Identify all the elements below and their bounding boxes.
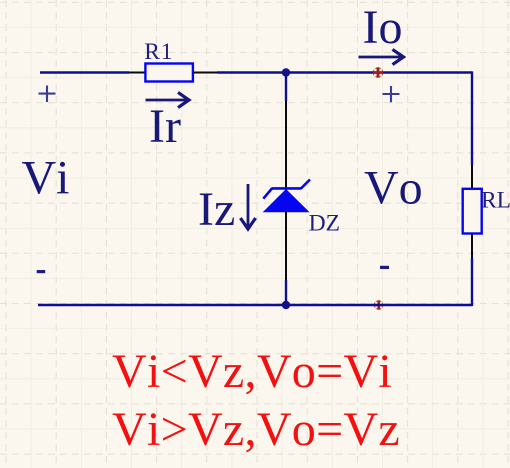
pin 2 of DZ (anode pin) <box>285 212 287 280</box>
wire: top input segment <box>40 71 129 73</box>
current arrow Ir <box>146 92 190 107</box>
current arrow Iz <box>240 184 255 229</box>
svg-text:Vo: Vo <box>364 162 423 215</box>
svg-text:RL: RL <box>481 188 510 214</box>
pin 2 of RL (bottom pin) <box>471 234 473 259</box>
minus terminal (input) <box>37 270 46 273</box>
plus terminal (output) <box>383 86 400 102</box>
minus terminal (output) <box>380 266 389 269</box>
wire: zener to node B <box>285 280 287 305</box>
svg-text:Iz: Iz <box>198 183 235 236</box>
zener diode DZ <box>263 180 310 213</box>
pin 2 of R1 (right pin) <box>193 72 217 74</box>
wire: node A down to zener <box>285 73 287 102</box>
plus terminal (input) <box>39 86 56 103</box>
svg-text:Io: Io <box>363 1 403 54</box>
resistor R1 <box>145 64 193 82</box>
wire: right vertical (top) <box>471 71 473 165</box>
resistor RL <box>463 189 482 234</box>
node A junction dot <box>282 68 290 76</box>
svg-text:Vi<Vz,Vo=Vi: Vi<Vz,Vo=Vi <box>112 345 392 398</box>
wire: R1 to node A <box>217 71 286 73</box>
node B junction dot <box>282 301 290 309</box>
no-ERC marker on top output wire <box>373 67 383 77</box>
pin 1 of DZ (cathode pin) <box>285 101 287 190</box>
pin 1 of RL (top pin) <box>471 165 473 189</box>
svg-text:Ir: Ir <box>149 100 181 153</box>
wire: bottom return <box>38 304 472 306</box>
svg-text:Vi>Vz,Vo=Vz: Vi>Vz,Vo=Vz <box>112 403 400 456</box>
svg-text:R1: R1 <box>144 39 173 65</box>
wire: node A to output corner <box>286 71 472 73</box>
svg-text:Vi: Vi <box>22 152 70 205</box>
pin 1 of R1 (left pin) <box>129 72 146 74</box>
no-ERC marker on bottom wire <box>374 300 383 309</box>
svg-text:DZ: DZ <box>309 211 340 237</box>
wire: right vertical (bottom) <box>471 258 473 306</box>
current arrow Io <box>359 49 404 64</box>
